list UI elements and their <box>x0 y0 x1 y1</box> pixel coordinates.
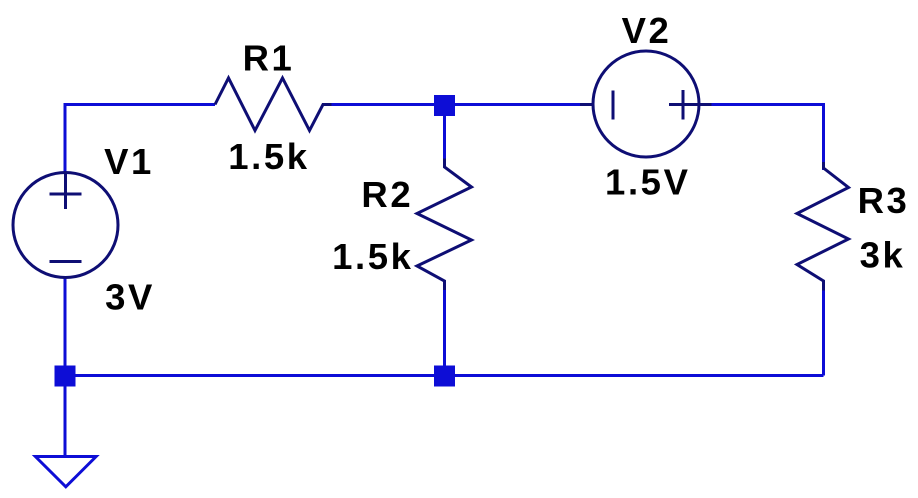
svg-text:1.5V: 1.5V <box>605 162 691 203</box>
resistor R1 <box>215 78 332 131</box>
wire ground node to ground symbol <box>64 376 67 457</box>
svg-text:3V: 3V <box>105 277 155 318</box>
svg-text:R3: R3 <box>858 180 910 221</box>
svg-text:3k: 3k <box>860 234 906 275</box>
svg-text:R2: R2 <box>361 174 413 215</box>
svg-text:R1: R1 <box>243 37 295 78</box>
wire top-left horizontal V1 to R1 <box>65 103 215 106</box>
wire V2 right to top-right corner <box>699 105 824 171</box>
svg-text:1.5k: 1.5k <box>332 236 413 277</box>
ground <box>35 457 96 487</box>
voltage source V2 <box>580 51 712 157</box>
node junction bottom left <box>55 366 76 387</box>
wire V1 bottom to ground node <box>64 276 67 376</box>
wire V1 top vertical <box>64 103 67 174</box>
svg-text:V2: V2 <box>622 10 672 51</box>
resistor R3 <box>797 162 849 291</box>
wire R1 right to V2 left <box>323 103 592 106</box>
svg-text:1.5k: 1.5k <box>228 136 309 177</box>
svg-text:V1: V1 <box>104 141 154 182</box>
node junction bottom middle <box>434 366 455 387</box>
wire R3 bottom to bottom rail <box>822 281 825 376</box>
wire node to R2 top <box>443 105 446 167</box>
wire bottom rail <box>65 374 824 377</box>
wire R2 bottom to node <box>443 281 446 376</box>
node junction top middle <box>434 95 455 116</box>
voltage source V1 <box>13 173 118 278</box>
resistor R2 <box>417 159 472 291</box>
